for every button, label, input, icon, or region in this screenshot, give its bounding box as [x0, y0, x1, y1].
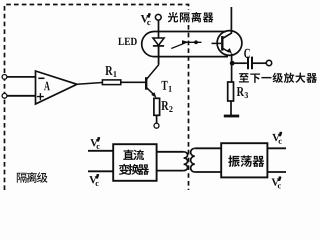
label T1	[161, 81, 167, 90]
op-amp minus sign	[38, 77, 44, 79]
oscillator box	[221, 143, 267, 177]
wire R1 to T1 base	[121, 81, 147, 83]
phototransistor collector lead and wire up	[222, 7, 231, 39]
wire R3 to ground	[230, 101, 232, 115]
wire input bottom	[7, 95, 36, 97]
phototransistor base bar	[221, 36, 223, 51]
transistor T1 base bar	[145, 77, 147, 90]
label 隔离级	[17, 173, 27, 183]
label Vc' left top	[90, 139, 98, 146]
junction node	[230, 61, 235, 66]
DC converter box	[113, 144, 156, 181]
label 振荡器	[228, 155, 240, 167]
ground bar	[224, 115, 239, 118]
terminal Vc'	[155, 14, 161, 20]
op-amp A triangle	[36, 71, 78, 104]
LED cathode bar	[153, 45, 164, 47]
light arrow diagonal	[171, 43, 184, 48]
light arrow line	[184, 41, 202, 43]
label 变换器	[119, 164, 130, 175]
input terminal top	[2, 75, 7, 80]
terminal below R2	[154, 123, 159, 128]
wire transformer to oscillator top	[195, 147, 221, 149]
label R2	[161, 101, 168, 110]
transistor T1 collector lead	[146, 46, 158, 80]
label Vc' right top	[272, 134, 280, 141]
wire left top into DC converter	[88, 150, 113, 152]
wire transformer to oscillator bottom	[195, 171, 221, 173]
wire oscillator right top	[267, 147, 286, 149]
resistor R1	[102, 80, 120, 85]
isolation boundary dashed box	[5, 5, 189, 191]
wire left bottom into DC converter	[88, 170, 113, 172]
label 至下一级放大器	[239, 73, 249, 82]
wire Vc' to LED	[158, 20, 160, 38]
transistor T1 emitter lead with arrow	[146, 87, 154, 95]
label R3	[237, 87, 244, 96]
emitter wire down	[231, 54, 233, 64]
wire junction to R3	[231, 63, 233, 82]
phototransistor emitter lead with arrow	[222, 48, 229, 52]
label 光隔离器	[168, 12, 178, 22]
label C	[244, 49, 250, 58]
output terminal	[266, 60, 271, 65]
phototransistor base lead	[212, 42, 222, 44]
phototransistor envelope circle	[217, 31, 242, 56]
capacitor C plates	[248, 57, 252, 70]
input terminal bottom	[2, 93, 7, 98]
label 直流	[123, 150, 133, 160]
light arrow head	[182, 40, 190, 44]
label Vc' left bottom	[89, 176, 97, 183]
wire DC converter to transformer top	[157, 151, 184, 153]
wire oscillator right bottom	[267, 171, 286, 173]
label LED	[118, 38, 124, 45]
label Vc' right bottom	[272, 179, 280, 186]
resistor R2	[154, 98, 160, 115]
resistor R3	[228, 82, 234, 101]
wire R2 to terminal	[156, 115, 158, 123]
wire junction to C	[232, 62, 247, 64]
label 光隔离器 background	[166, 10, 214, 24]
LED cathode wire down to T1 collector	[158, 47, 160, 65]
transformer primary winding	[184, 152, 188, 171]
op-amp plus sign	[37, 93, 44, 100]
label R1	[105, 66, 112, 75]
transformer secondary winding	[191, 148, 195, 172]
wire op-amp output to R1	[77, 83, 102, 85]
label Vc' top	[141, 15, 149, 23]
wire DC converter to transformer bottom	[157, 170, 184, 172]
LED diode triangle	[153, 38, 164, 45]
wire C to output terminal	[253, 62, 266, 64]
light arrow dot	[194, 40, 198, 44]
opto-isolator stadium outline	[142, 32, 228, 57]
wire input top	[7, 76, 36, 78]
op-amp label A	[44, 82, 50, 91]
